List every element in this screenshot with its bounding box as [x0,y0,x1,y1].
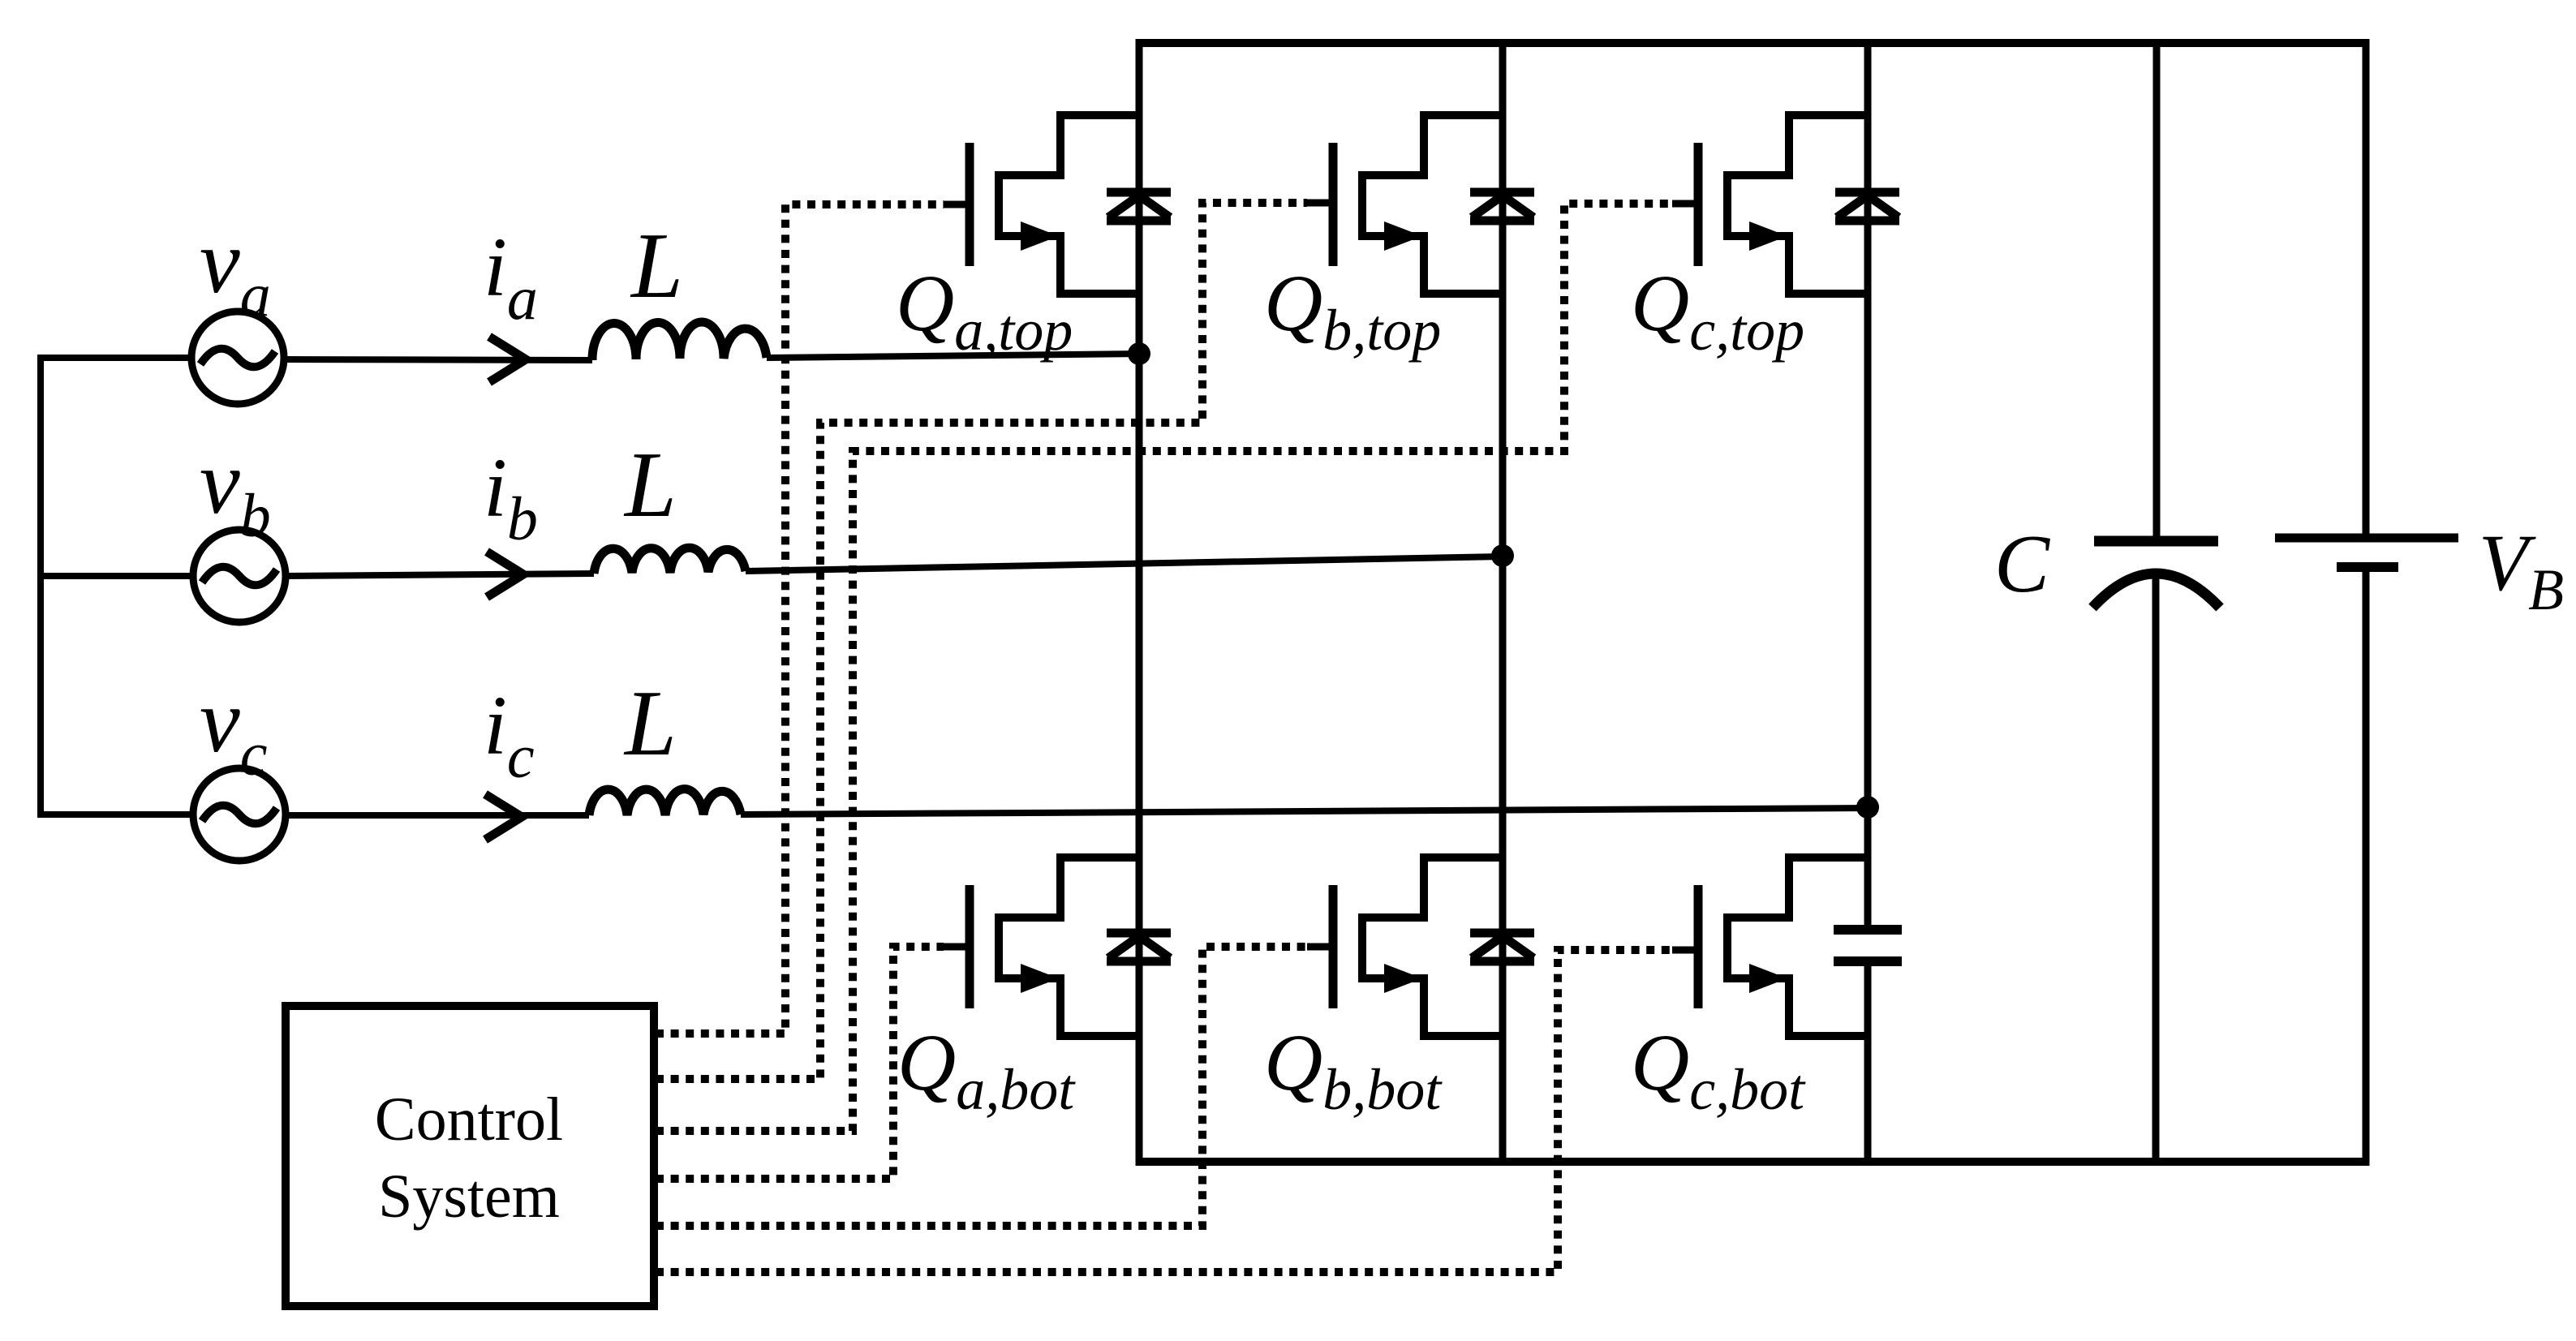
dotted gate wire Qa,bot [656,947,944,1179]
node B junction dot [1491,544,1514,567]
wire phase c leg upper [1864,39,1872,930]
transistor Qb,top gate stub [1307,200,1333,207]
inductor L phase b [594,548,746,574]
wire phase c leg lower [1864,961,1872,1166]
capacitor C branch upper wire [2153,39,2161,537]
wire phase b from inductor to node B [746,557,1503,571]
wire phase b from rail to source [41,573,193,579]
transistor Qc,bot gate stub [1672,947,1698,954]
transistor Qb,bot gate bar [1329,885,1338,1008]
transistor Qc,bot gate bar [1694,885,1703,1008]
wire phase c from rail to source [41,811,193,818]
capacitor C top plate [2094,536,2218,547]
node A junction dot [1128,342,1150,365]
capacitor Qc,bot bottom plate [1834,956,1902,966]
diode Qc,top cathode bar [1835,188,1899,197]
wire left neutral rail [37,355,44,818]
battery VB upper wire [2363,39,2370,534]
node C junction dot [1856,796,1879,819]
capacitor C lower wire [2152,573,2160,1166]
wire phase c from inductor to node C [741,808,1868,814]
transistor Qc,top gate bar [1694,143,1703,266]
transistor Qa,top source arrow [1021,221,1059,251]
diode Qb,bot triangle [1472,936,1533,958]
dotted gate wire Qa,top [656,204,944,1034]
wire phase a leg [1136,39,1143,1166]
svg-text:L: L [623,672,677,775]
svg-text:C: C [1994,518,2050,610]
arrow current ic [485,794,522,840]
battery VB lower wire [2363,571,2370,1166]
diode Qa,bot cathode bar [1107,929,1171,938]
diode Qa,top triangle [1108,196,1170,217]
battery VB positive long bar [2275,534,2458,543]
transistor Qa,top gate bar [965,143,974,266]
wire DC bus bottom rail [1139,1158,2366,1166]
transistor Qb,top gate bar [1329,143,1338,266]
wire phase a from source to inductor [284,359,592,360]
transistor Qb,top source arrow [1384,221,1422,251]
transistor Qc,top gate stub [1672,200,1698,208]
transistor Qa,top channel [999,115,1139,294]
transistor Qa,bot channel [999,857,1139,1036]
inductor L phase c [589,789,741,815]
dotted gate wire Qc,bot [656,950,1672,1272]
wire phase b from source to inductor [286,574,594,576]
wire phase b leg [1499,39,1507,1166]
diode Qb,top cathode bar [1470,188,1534,197]
diode Qb,bot anode bar [1470,957,1534,966]
AC source vb [193,530,286,622]
dotted gate wire Qb,top [656,203,1307,1079]
transistor Qc,top channel [1727,115,1868,294]
diode Qa,top anode bar [1107,217,1171,226]
transistor Qb,bot gate stub [1307,943,1333,951]
capacitor C curved bottom plate [2092,574,2220,608]
wire DC bus top rail [1139,39,2366,47]
wire phase a from inductor to node A [767,354,1139,358]
arrow current ia [489,337,526,382]
wire phase a from rail to source [41,355,191,361]
diode Qa,bot anode bar [1107,957,1171,966]
transistor Qb,bot source arrow [1384,964,1422,993]
transistor Qc,bot channel [1727,857,1868,1036]
transistor Qc,top source arrow [1749,221,1787,251]
battery VB negative short bar [2337,562,2398,572]
dotted gate wire Qb,bot [656,947,1307,1226]
arrow current ib [487,552,523,597]
svg-text:System: System [378,1163,560,1231]
diode Qb,top anode bar [1470,217,1534,226]
transistor Qa,bot source arrow [1021,964,1059,993]
svg-text:L: L [623,433,677,536]
diode Qc,top triangle [1837,196,1899,217]
wire phase c from source to inductor [286,812,589,819]
control system box [286,1006,654,1306]
svg-text:L: L [630,214,683,317]
inductor L phase a [592,322,767,360]
transistor Qb,bot channel [1362,857,1503,1036]
diode Qb,bot cathode bar [1470,929,1534,938]
transistor Qa,bot gate bar [965,885,974,1008]
AC source vc [193,768,286,861]
transistor Qc,bot source arrow [1749,964,1787,993]
transistor Qb,top channel [1362,115,1503,294]
capacitor Qc,bot top plate [1834,925,1902,935]
dotted gate wire Qc,top [656,204,1672,1131]
svg-text:Control: Control [375,1085,563,1154]
diode Qb,top triangle [1472,196,1533,217]
diode Qa,bot triangle [1108,936,1170,958]
transistor Qa,top gate stub [944,201,970,208]
AC source va [191,312,284,404]
diode Qc,top anode bar [1835,217,1899,226]
diode Qa,top cathode bar [1107,188,1171,197]
transistor Qa,bot gate stub [944,943,970,951]
